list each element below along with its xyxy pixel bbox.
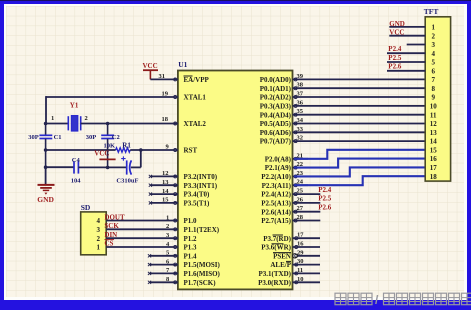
crystal Y1 <box>71 116 77 131</box>
svg-text:P2.6: P2.6 <box>318 204 332 212</box>
svg-text:P2.5: P2.5 <box>388 54 402 62</box>
MCU U1 body <box>178 71 293 290</box>
svg-text:CS: CS <box>104 240 113 248</box>
svg-text:P0.2(AD2): P0.2(AD2) <box>260 94 292 102</box>
svg-text:33: 33 <box>297 126 304 133</box>
svg-text:17: 17 <box>297 232 304 239</box>
watermark text <box>335 293 346 305</box>
svg-text:C2: C2 <box>112 134 120 141</box>
wire stub pin 10 <box>293 281 321 283</box>
svg-text:P3.2(INT0): P3.2(INT0) <box>184 173 218 181</box>
svg-text:P1.6(MISO): P1.6(MISO) <box>184 270 221 278</box>
wire P2.1 stub pin 22 <box>293 167 309 169</box>
svg-text:C4: C4 <box>72 157 81 164</box>
svg-text:P0.5(AD5): P0.5(AD5) <box>260 120 292 128</box>
svg-text:1: 1 <box>166 214 169 221</box>
wire P2.3 stub pin 24 <box>293 184 309 186</box>
wire stub pin 11 <box>293 272 321 274</box>
resistor R1 10K <box>116 148 131 152</box>
wire P3.3 stub pin 13 <box>150 184 178 186</box>
svg-text:2: 2 <box>431 32 435 40</box>
wire P0.5 to TFT pin 12 <box>293 123 426 125</box>
svg-text:P2.2(A10): P2.2(A10) <box>261 173 291 181</box>
svg-text:39: 39 <box>297 73 304 80</box>
svg-text:29: 29 <box>297 249 304 256</box>
svg-text:34: 34 <box>297 117 304 124</box>
svg-text:30P: 30P <box>28 134 39 141</box>
svg-text:2: 2 <box>97 235 101 243</box>
svg-text:P2.4: P2.4 <box>388 45 402 53</box>
svg-text:R1: R1 <box>122 141 131 149</box>
wire P2.0 stub pin 21 <box>293 158 309 160</box>
svg-text:P1.3: P1.3 <box>184 244 198 252</box>
capacitor C1 <box>45 124 47 136</box>
svg-text:1: 1 <box>51 115 54 122</box>
wire pin31 <box>150 78 178 80</box>
svg-text:P1.4: P1.4 <box>184 252 198 260</box>
svg-text:P2.6(A14): P2.6(A14) <box>261 208 291 216</box>
wire P2.4 to TFT pin 4 <box>387 52 425 54</box>
node: VCC stem junction <box>106 166 110 170</box>
svg-text:RST: RST <box>184 147 198 155</box>
svg-text:1: 1 <box>97 244 101 252</box>
svg-text:10: 10 <box>297 276 304 283</box>
svg-text:VCC: VCC <box>143 62 158 70</box>
svg-text:P3.7(RD): P3.7(RD) <box>263 235 291 243</box>
svg-text:GND: GND <box>37 195 54 204</box>
svg-text:VCC: VCC <box>94 149 109 157</box>
svg-text:17: 17 <box>430 164 438 172</box>
svg-text:4: 4 <box>431 50 435 58</box>
svg-text:P3.5(T1): P3.5(T1) <box>184 200 211 208</box>
svg-text:7: 7 <box>431 76 435 84</box>
svg-text:10: 10 <box>430 103 438 111</box>
svg-text:19: 19 <box>162 91 169 98</box>
svg-text:2: 2 <box>85 115 88 122</box>
svg-text:1: 1 <box>431 24 435 32</box>
svg-text:11: 11 <box>430 111 437 119</box>
wire P3.2 stub pin 12 <box>150 175 178 177</box>
svg-text:Y1: Y1 <box>70 101 79 109</box>
wire P1.6 stub pin 7 <box>150 272 178 274</box>
svg-text:DIN: DIN <box>104 231 117 239</box>
svg-text:38: 38 <box>297 82 304 89</box>
svg-text:P1.2: P1.2 <box>184 235 198 243</box>
svg-text:25: 25 <box>297 188 304 195</box>
svg-text:P1.7(SCK): P1.7(SCK) <box>184 279 217 287</box>
svg-text:P1.0: P1.0 <box>184 217 198 225</box>
svg-text:P3.1(TXD): P3.1(TXD) <box>259 270 292 278</box>
svg-text:3: 3 <box>97 226 101 234</box>
wire XTAL1 vertical <box>45 96 47 123</box>
wire crystal left <box>46 123 69 125</box>
wire P3.4 stub pin 14 <box>150 193 178 195</box>
svg-text:9: 9 <box>431 94 435 102</box>
svg-text:14: 14 <box>162 188 169 195</box>
wire SD pin 1 to U1 <box>106 246 178 248</box>
svg-text:PSEN: PSEN <box>273 252 291 260</box>
wire XTAL1 pin19 <box>46 96 178 98</box>
wire P0.3 to TFT pin 10 <box>293 105 426 107</box>
svg-text:P2.5: P2.5 <box>318 195 332 203</box>
svg-text:30: 30 <box>297 258 304 265</box>
svg-text:SCK: SCK <box>104 222 119 230</box>
svg-text:15: 15 <box>162 197 169 204</box>
svg-text:P3.6(WR): P3.6(WR) <box>261 244 291 252</box>
svg-text:3: 3 <box>431 41 435 49</box>
node: C2 junction <box>106 122 110 126</box>
svg-text:P2.5(A13): P2.5(A13) <box>261 200 291 208</box>
capacitor C4 104 <box>73 161 75 173</box>
svg-text:35: 35 <box>297 108 304 115</box>
wire P3.5 stub pin 15 <box>150 202 178 204</box>
wire P0.6 to TFT pin 13 <box>293 131 426 133</box>
svg-text:18: 18 <box>430 173 438 181</box>
wire stub TFT pin3 <box>407 44 426 46</box>
node: R1 left junction <box>44 148 48 152</box>
svg-text:P2.4(A12): P2.4(A12) <box>261 191 291 199</box>
svg-text:2: 2 <box>166 223 169 230</box>
ground rail left <box>46 166 74 168</box>
wire SD pin 4 to U1 <box>106 220 178 222</box>
wire P2.4 stub pin 25 <box>293 193 321 195</box>
wire P2.2 step to TFT pin 17 <box>294 167 425 176</box>
svg-text:P3.4(T0): P3.4(T0) <box>184 191 211 199</box>
svg-text:16: 16 <box>430 155 438 163</box>
svg-text:P0.4(AD4): P0.4(AD4) <box>260 111 292 119</box>
node: C1 junction <box>44 122 48 126</box>
svg-text:XTAL1: XTAL1 <box>184 94 207 102</box>
wire RST left (R1 to ground rail) <box>46 149 116 151</box>
svg-text:P1.5(MOSI): P1.5(MOSI) <box>184 261 221 269</box>
svg-text:31: 31 <box>159 73 166 80</box>
svg-text:P3.0(RXD): P3.0(RXD) <box>258 279 292 287</box>
svg-text:P0.7(AD7): P0.7(AD7) <box>260 138 292 146</box>
svg-text:4: 4 <box>97 217 101 225</box>
svg-text:ALE/P: ALE/P <box>270 261 291 269</box>
wire stub pin 16 <box>293 246 321 248</box>
wire P1.4 stub pin 5 <box>150 255 178 257</box>
wire P2.2 stub pin 23 <box>293 175 309 177</box>
svg-text:P2.4: P2.4 <box>318 186 332 194</box>
svg-text:5: 5 <box>431 59 435 67</box>
svg-text:P2.1(A9): P2.1(A9) <box>265 164 292 172</box>
svg-text:27: 27 <box>297 205 304 212</box>
svg-text:37: 37 <box>297 91 304 98</box>
svg-text:10K: 10K <box>104 142 116 149</box>
svg-text:P2.6: P2.6 <box>388 63 402 71</box>
svg-text:P0.1(AD1): P0.1(AD1) <box>260 85 292 93</box>
svg-text:18: 18 <box>162 116 169 123</box>
wire P2.0 step to TFT pin 15 <box>294 150 425 159</box>
wire SD pin 3 to U1 <box>106 228 178 230</box>
connector TFT <box>425 17 450 181</box>
wire P2.5 to TFT pin 5 <box>387 61 425 63</box>
svg-text:P3.3(INT1): P3.3(INT1) <box>184 182 218 190</box>
connector SD <box>81 212 107 255</box>
wire P0.0 to TFT pin 7 <box>293 78 426 80</box>
wire P2.6 stub pin 27 <box>293 211 321 213</box>
wire GND to TFT pin1 <box>389 26 425 28</box>
svg-text:TFT: TFT <box>424 7 439 16</box>
svg-text:16: 16 <box>297 241 304 248</box>
wire P0.4 to TFT pin 11 <box>293 114 426 116</box>
svg-text:P2.3(A11): P2.3(A11) <box>262 182 292 190</box>
svg-text:28: 28 <box>297 214 304 221</box>
svg-text:SD: SD <box>81 203 91 212</box>
svg-text:36: 36 <box>297 99 304 106</box>
wire P0.2 to TFT pin 9 <box>293 96 426 98</box>
wire P0.1 to TFT pin 8 <box>293 87 426 89</box>
svg-text:U1: U1 <box>178 60 187 69</box>
svg-text:30P: 30P <box>86 134 97 141</box>
svg-text:C1: C1 <box>54 134 62 141</box>
svg-text:104: 104 <box>71 177 82 184</box>
svg-text:P0.0(AD0): P0.0(AD0) <box>260 76 292 84</box>
VCC rail (C4 to C3) <box>78 166 126 168</box>
wire P1.7 stub pin 8 <box>150 281 178 283</box>
svg-text:P0.3(AD3): P0.3(AD3) <box>260 103 292 111</box>
svg-text:12: 12 <box>430 120 438 128</box>
svg-text:EA/VPP: EA/VPP <box>184 76 210 84</box>
svg-text:13: 13 <box>162 179 169 186</box>
wire P2.6 to TFT pin 6 <box>387 70 425 72</box>
svg-text:13: 13 <box>430 129 438 137</box>
svg-text:XTAL2: XTAL2 <box>184 120 207 128</box>
wire VCC to TFT pin2 <box>389 35 425 37</box>
wire RST right <box>130 149 178 151</box>
wire stub pin 17 <box>293 237 321 239</box>
svg-text:P0.6(AD6): P0.6(AD6) <box>260 129 292 137</box>
wire XTAL2 pin18 <box>81 123 178 125</box>
capacitor C2 <box>107 124 109 136</box>
wire P2.1 step to TFT pin 16 <box>294 159 425 168</box>
svg-text:DOUT: DOUT <box>104 213 125 221</box>
svg-text:14: 14 <box>430 138 438 146</box>
svg-text:P2.7(A15): P2.7(A15) <box>261 217 291 225</box>
capacitor C3 10uF electrolytic <box>126 160 128 174</box>
wire stub pin 30 <box>293 264 321 266</box>
svg-text:P1.1(T2EX): P1.1(T2EX) <box>184 226 220 234</box>
svg-text:6: 6 <box>431 67 435 75</box>
svg-text:8: 8 <box>431 85 435 93</box>
svg-text:11: 11 <box>297 267 303 274</box>
wire P0.7 to TFT pin 14 <box>293 140 426 142</box>
svg-text:26: 26 <box>297 196 304 203</box>
wire C3 to RST node <box>131 166 141 168</box>
wire P2.7 stub pin 28 <box>293 220 321 222</box>
wire P2.5 stub pin 26 <box>293 202 321 204</box>
wire stub pin 29 <box>297 255 320 257</box>
PSEN bubble <box>293 254 297 258</box>
wire P2.3 step to TFT pin 18 <box>294 176 425 185</box>
svg-text:C310uF: C310uF <box>116 177 138 184</box>
node: RST junction <box>139 148 143 152</box>
svg-text:15: 15 <box>430 146 438 154</box>
node: rail-GND junction <box>44 165 48 169</box>
svg-text:P2.0(A8): P2.0(A8) <box>265 155 292 163</box>
wire P1.5 stub pin 6 <box>150 264 178 266</box>
ground symbol <box>45 167 47 184</box>
svg-text:12: 12 <box>162 170 169 177</box>
svg-text:32: 32 <box>297 135 304 142</box>
wire SD pin 2 to U1 <box>106 237 178 239</box>
